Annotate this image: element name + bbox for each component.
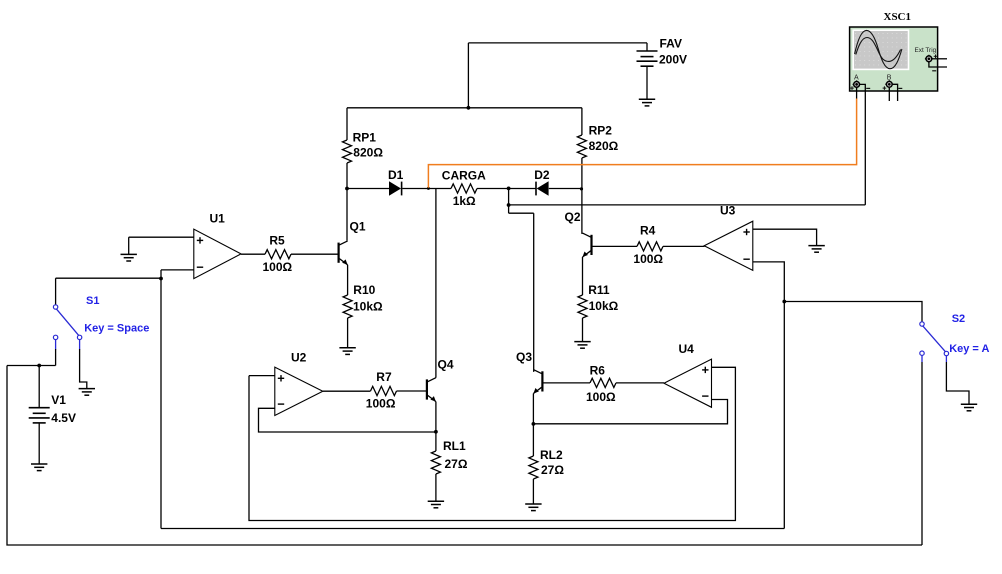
svg-text:D1: D1 <box>388 168 404 182</box>
wire S1 to U1 <box>56 277 161 279</box>
pin stub B- <box>892 84 897 101</box>
transistor Q4 <box>427 378 436 402</box>
wire U1 feedback drop <box>160 279 162 529</box>
wire scope probe (orange) <box>428 99 856 188</box>
wire U3 - input <box>753 262 785 529</box>
label scope B <box>887 75 892 82</box>
svg-text:Key = Space: Key = Space <box>84 323 149 335</box>
resistor R4 <box>637 242 663 251</box>
wire S1 right throw to gnd <box>80 349 87 389</box>
node orange tap <box>427 187 430 190</box>
node V1 junction <box>37 364 41 368</box>
label RP2 <box>589 124 613 138</box>
resistor RP1 <box>343 108 352 241</box>
label RL2 <box>540 448 563 462</box>
wire FAV top <box>468 42 647 44</box>
label R10 <box>353 283 375 297</box>
wire S2 left throw <box>921 362 923 545</box>
wire FAV drop <box>467 43 469 108</box>
svg-text:R4: R4 <box>640 223 656 237</box>
wire S1 top <box>55 278 57 305</box>
op-amp U3 <box>704 221 753 270</box>
pin stub B+ <box>888 87 890 101</box>
svg-text:200V: 200V <box>659 53 687 67</box>
ground FAV <box>639 99 655 106</box>
ground RL1 <box>428 501 444 508</box>
ground U3 <box>808 246 824 253</box>
wire Q3 emitter <box>532 394 534 457</box>
svg-text:100Ω: 100Ω <box>633 252 663 266</box>
svg-text:S2: S2 <box>952 313 965 325</box>
label D1 <box>388 168 404 182</box>
op-amp U4 <box>664 359 712 407</box>
oscilloscope XSC1 body <box>850 27 938 91</box>
wire R4 to U3 <box>663 245 705 247</box>
battery V1 <box>29 408 50 464</box>
wire U2 + loop <box>249 367 735 520</box>
resistor R6 <box>590 378 616 387</box>
svg-text:D2: D2 <box>534 168 550 182</box>
svg-text:CARGA: CARGA <box>442 169 486 183</box>
svg-text:XSC1: XSC1 <box>884 11 912 23</box>
wire Q1 emitter <box>347 265 349 295</box>
wire Q2 emitter <box>582 257 584 295</box>
svg-text:RP2: RP2 <box>589 124 613 138</box>
resistor RP2 <box>577 108 586 234</box>
label S2 key <box>949 343 989 355</box>
scope terminal Ext Trig <box>925 55 937 71</box>
label D2 <box>534 168 550 182</box>
wire rail RP1-RP2 <box>347 107 582 109</box>
node U1 feedback junction <box>159 277 163 281</box>
svg-text:820Ω: 820Ω <box>353 146 383 160</box>
svg-text:4.5V: 4.5V <box>51 411 76 425</box>
ground RL2 <box>525 504 541 511</box>
label scope A <box>854 75 859 82</box>
diode D2 <box>536 181 549 195</box>
ground V1 <box>31 464 47 471</box>
wire R6 to U4 <box>616 382 664 384</box>
wire D2 to RP2 <box>549 188 582 190</box>
wire sense step <box>509 212 534 214</box>
svg-text:100Ω: 100Ω <box>366 397 396 411</box>
battery FAV <box>637 43 658 99</box>
label R7 value <box>366 397 396 411</box>
svg-text:27Ω: 27Ω <box>445 457 468 471</box>
label Q3 <box>516 350 532 364</box>
label U4 <box>679 342 695 356</box>
label FAV <box>660 36 682 50</box>
resistor RL1 <box>431 451 440 501</box>
pin stub ExtTrig+ <box>932 58 947 60</box>
scope terminal A <box>850 80 870 90</box>
label RP2 value <box>589 139 619 153</box>
label CARGA value <box>453 194 476 208</box>
ground S1 <box>79 389 95 396</box>
wire U3 + input <box>753 229 817 245</box>
pin stub A- <box>860 84 865 204</box>
label XSC1 <box>884 11 912 23</box>
wire Q2 base to R4 <box>592 245 638 247</box>
label RP1 value <box>353 146 383 160</box>
label U1 <box>210 212 226 226</box>
wire Q3 collector column <box>533 213 535 372</box>
svg-text:U3: U3 <box>720 203 736 217</box>
label Ext Trig <box>915 47 937 54</box>
wire R7 to Q4 <box>397 390 427 392</box>
wire U1 + input <box>129 237 194 254</box>
label 200V <box>659 53 687 67</box>
svg-text:RL2: RL2 <box>540 448 563 462</box>
ground R10 <box>339 348 355 355</box>
wire S1 left throw <box>55 349 57 366</box>
svg-text:R5: R5 <box>269 234 285 248</box>
svg-text:V1: V1 <box>51 393 66 407</box>
svg-text:Q2: Q2 <box>565 210 581 224</box>
svg-text:Q1: Q1 <box>350 219 366 233</box>
scope terminal B <box>883 80 903 90</box>
label V1 value <box>51 411 76 425</box>
ground U1 <box>121 254 137 261</box>
node RL2 junction <box>532 422 536 426</box>
resistor RL2 <box>529 456 538 504</box>
svg-text:10kΩ: 10kΩ <box>589 299 619 313</box>
switch S1 <box>53 305 81 350</box>
svg-text:RP1: RP1 <box>353 130 377 144</box>
svg-text:100Ω: 100Ω <box>586 390 616 404</box>
label R10 value <box>353 300 383 314</box>
svg-text:1kΩ: 1kΩ <box>453 194 476 208</box>
wire U3 feedback bottom <box>161 528 784 530</box>
op-amp U1 <box>194 229 241 278</box>
pin stub ExtTrig- <box>929 62 947 67</box>
node rail-FAV junction <box>467 106 471 110</box>
diode D1 <box>389 181 402 195</box>
svg-text:Q3: Q3 <box>516 350 532 364</box>
resistor R5 <box>265 250 291 259</box>
label R11 value <box>589 299 619 313</box>
svg-text:R6: R6 <box>590 364 606 378</box>
wire U4 - input <box>533 400 727 424</box>
label U2 <box>291 350 307 364</box>
wire Q4 collector <box>435 189 437 378</box>
svg-text:S1: S1 <box>86 295 99 307</box>
wire sense to scope A- <box>509 204 866 206</box>
label R5 value <box>263 260 293 274</box>
ground S2 <box>961 404 977 411</box>
node RL1 junction <box>434 430 438 434</box>
node RP2-D2 junction <box>580 187 583 190</box>
svg-text:U1: U1 <box>210 212 226 226</box>
wire V1 top <box>7 366 56 408</box>
ground R11 <box>574 342 590 349</box>
wire S2 right throw to gnd <box>946 362 969 404</box>
svg-text:820Ω: 820Ω <box>589 139 619 153</box>
wire CARGA to D2 <box>477 188 536 190</box>
wire Q4 emitter <box>435 402 437 451</box>
label S2 <box>952 313 965 325</box>
label R11 <box>588 283 610 297</box>
svg-text:FAV: FAV <box>660 36 682 50</box>
switch S2 <box>920 322 949 362</box>
label U3 <box>720 203 736 217</box>
label CARGA <box>442 169 486 183</box>
pin stub A+ <box>856 87 858 98</box>
svg-text:RL1: RL1 <box>443 439 466 453</box>
node sense junction <box>507 203 511 207</box>
wire U2 output <box>323 390 371 392</box>
label RL1 <box>443 439 466 453</box>
label RL1 value <box>445 457 468 471</box>
node RP1-D1 junction <box>345 187 349 191</box>
resistor R10 <box>343 295 352 348</box>
svg-text:Ext Trig: Ext Trig <box>915 47 937 54</box>
label RL2 value <box>541 463 564 477</box>
label R4 <box>640 223 656 237</box>
transistor Q2 <box>583 233 592 257</box>
resistor CARGA <box>451 184 477 193</box>
op-amp U2 <box>275 367 323 415</box>
wire left loop <box>7 366 922 546</box>
label Q1 <box>350 219 366 233</box>
svg-text:Key = A: Key = A <box>949 343 989 355</box>
svg-text:R7: R7 <box>376 370 392 384</box>
label V1 <box>51 393 66 407</box>
transistor Q3 <box>533 370 542 394</box>
label R6 value <box>586 390 616 404</box>
wire U1 - input <box>161 270 194 279</box>
label R4 value <box>633 252 663 266</box>
wire U2 - input <box>259 408 437 432</box>
wire R5 to Q1 <box>291 253 339 255</box>
label R6 <box>590 364 606 378</box>
wire D1 to CARGA <box>402 188 451 190</box>
wire U1 output <box>241 253 265 255</box>
svg-text:U2: U2 <box>291 350 307 364</box>
label R5 <box>269 234 285 248</box>
wire to S2 <box>784 302 922 322</box>
svg-text:100Ω: 100Ω <box>263 260 293 274</box>
label R7 <box>376 370 392 384</box>
svg-text:U4: U4 <box>679 342 695 356</box>
wire RP1 to D1 <box>347 188 389 190</box>
wire Q3 base to R6 <box>542 382 590 384</box>
label RP1 <box>353 130 377 144</box>
label Q4 <box>438 358 454 372</box>
svg-text:R11: R11 <box>588 283 610 297</box>
label S1 key <box>84 323 149 335</box>
node D2 anode junction <box>507 187 511 191</box>
wire sense drop <box>508 188 510 213</box>
svg-text:Q4: Q4 <box>438 358 454 372</box>
transistor Q1 <box>339 241 348 265</box>
svg-text:10kΩ: 10kΩ <box>353 300 383 314</box>
svg-text:R10: R10 <box>353 283 375 297</box>
label S1 <box>86 295 99 307</box>
resistor R11 <box>578 295 587 341</box>
wire U2 + input <box>249 375 275 377</box>
node U3 feedback junction <box>782 300 786 304</box>
resistor R7 <box>371 386 397 395</box>
label Q2 <box>565 210 581 224</box>
svg-text:27Ω: 27Ω <box>541 463 564 477</box>
